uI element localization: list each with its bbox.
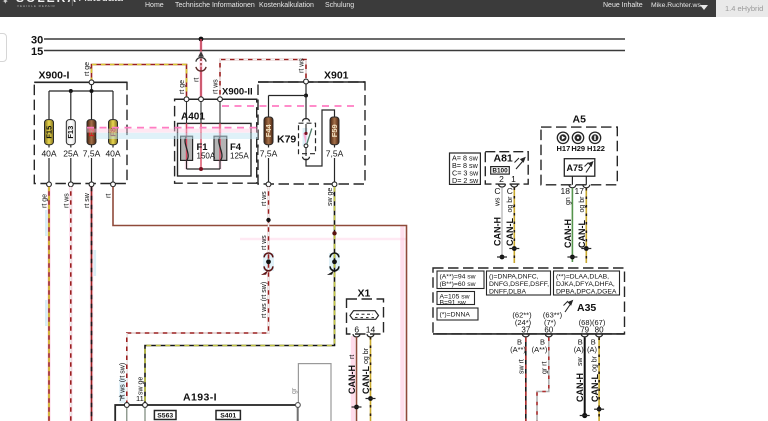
svg-text:40A: 40A [105,149,120,159]
svg-text:C: C [507,186,513,196]
svg-text:A193-I: A193-I [183,392,217,404]
svg-text:(*)=DNNA: (*)=DNNA [440,311,471,318]
svg-text:11: 11 [136,394,144,403]
svg-text:15: 15 [31,46,43,58]
svg-text:rt ws: rt ws [261,235,268,250]
svg-text:F44: F44 [264,124,273,138]
svg-text:X901: X901 [324,70,349,82]
svg-text:og br: og br [592,355,599,372]
svg-text:7: 7 [119,394,123,403]
svg-text:gr: gr [291,387,298,394]
svg-text:18: 18 [561,186,571,196]
svg-text:S563: S563 [157,412,173,419]
svg-text:125A: 125A [230,152,249,161]
svg-text:37: 37 [521,326,530,335]
svg-text:7,5A: 7,5A [326,149,344,159]
svg-text:rt: rt [106,194,113,198]
svg-text:A81: A81 [494,153,513,165]
svg-text:CAN-H: CAN-H [493,217,503,246]
svg-text:(A**)=94 sw: (A**)=94 sw [440,273,476,280]
svg-text:DNFF,DLBA: DNFF,DLBA [489,288,526,295]
svg-text:rt ws: rt ws [261,191,268,206]
svg-text:rt sw: rt sw [84,192,91,208]
svg-text:H17: H17 [557,144,571,153]
svg-text:rt ge: rt ge [84,62,91,76]
svg-text:6: 6 [354,325,359,335]
svg-text:A5: A5 [573,114,587,126]
svg-text:25A: 25A [63,149,78,159]
svg-text:79: 79 [580,326,589,335]
svg-text:17: 17 [575,186,585,196]
svg-text:DPBA,DPCA,DGEA: DPBA,DPCA,DGEA [556,288,617,295]
svg-text:rt ws: rt ws [299,58,306,73]
svg-text:gn: gn [565,197,572,205]
svg-text:CAN-L: CAN-L [361,366,371,394]
svg-text:C: C [494,186,500,196]
svg-text:150A: 150A [197,152,216,161]
svg-text:og br: og br [507,196,514,213]
svg-text:sw: sw [577,357,584,367]
svg-text:rt ge: rt ge [179,80,186,94]
svg-text:og br: og br [579,196,586,213]
svg-text:60: 60 [544,326,553,335]
svg-text:7,5A: 7,5A [260,149,278,159]
svg-text:(A**): (A**) [510,345,526,354]
svg-text:X1: X1 [358,288,371,300]
svg-text:(**)=DLAA,DLAB,: (**)=DLAA,DLAB, [556,273,609,280]
svg-text:DNFG,DSFE,DSFF,: DNFG,DSFE,DSFF, [489,281,549,288]
svg-text:X900-II: X900-II [222,87,253,98]
svg-text:ws: ws [495,197,502,207]
svg-text:K79: K79 [277,134,296,146]
svg-text:()=DNPA,DNFC,: ()=DNPA,DNFC, [489,273,539,280]
svg-text:B=91 sw: B=91 sw [440,299,466,306]
svg-text:F59: F59 [330,124,339,137]
svg-text:CAN-L: CAN-L [577,220,587,248]
svg-text:CAN-L: CAN-L [505,218,515,246]
svg-text:gr rt: gr rt [541,362,548,375]
svg-text:(A): (A) [574,345,585,354]
svg-text:DJKA,DFYA,DHFA,: DJKA,DFYA,DHFA, [556,281,615,288]
svg-text:CAN-H: CAN-H [347,365,357,394]
svg-text:rt: rt [194,78,201,82]
svg-text:D= 2 sw: D= 2 sw [452,176,479,185]
svg-text:sw rt: sw rt [518,359,525,374]
svg-text:(B**)=60 sw: (B**)=60 sw [440,281,476,288]
svg-text:rt ws: rt ws [63,193,70,208]
svg-text:7,5A: 7,5A [83,149,101,159]
svg-text:og br: og br [363,347,370,364]
svg-text:A75: A75 [567,163,584,173]
svg-text:H29: H29 [571,144,585,153]
svg-text:F13: F13 [66,126,75,139]
svg-text:1: 1 [511,174,516,184]
svg-text:CAN-H: CAN-H [575,373,585,402]
svg-text:F15: F15 [44,126,53,139]
svg-text:S401: S401 [220,412,236,419]
svg-text:rt: rt [349,355,356,359]
svg-text:14: 14 [366,325,376,335]
svg-text:X900-I: X900-I [39,70,70,82]
svg-text:H122: H122 [587,144,605,153]
svg-text:2: 2 [499,174,504,184]
svg-text:rt ws (rt sw): rt ws (rt sw) [261,282,268,318]
svg-text:(A**): (A**) [532,345,548,354]
svg-text:40A: 40A [41,149,56,159]
svg-text:(A): (A) [587,345,598,354]
svg-text:sw ge: sw ge [137,377,144,395]
svg-text:A401: A401 [181,112,205,123]
svg-text:80: 80 [595,326,604,335]
svg-text:A35: A35 [577,302,596,314]
svg-text:sw ge: sw ge [327,188,334,206]
svg-text:30: 30 [31,35,43,47]
svg-text:CAN-H: CAN-H [563,219,573,248]
svg-text:CAN-L: CAN-L [590,374,600,402]
svg-text:rt ws: rt ws [213,79,220,94]
svg-text:rt ge: rt ge [42,194,49,208]
